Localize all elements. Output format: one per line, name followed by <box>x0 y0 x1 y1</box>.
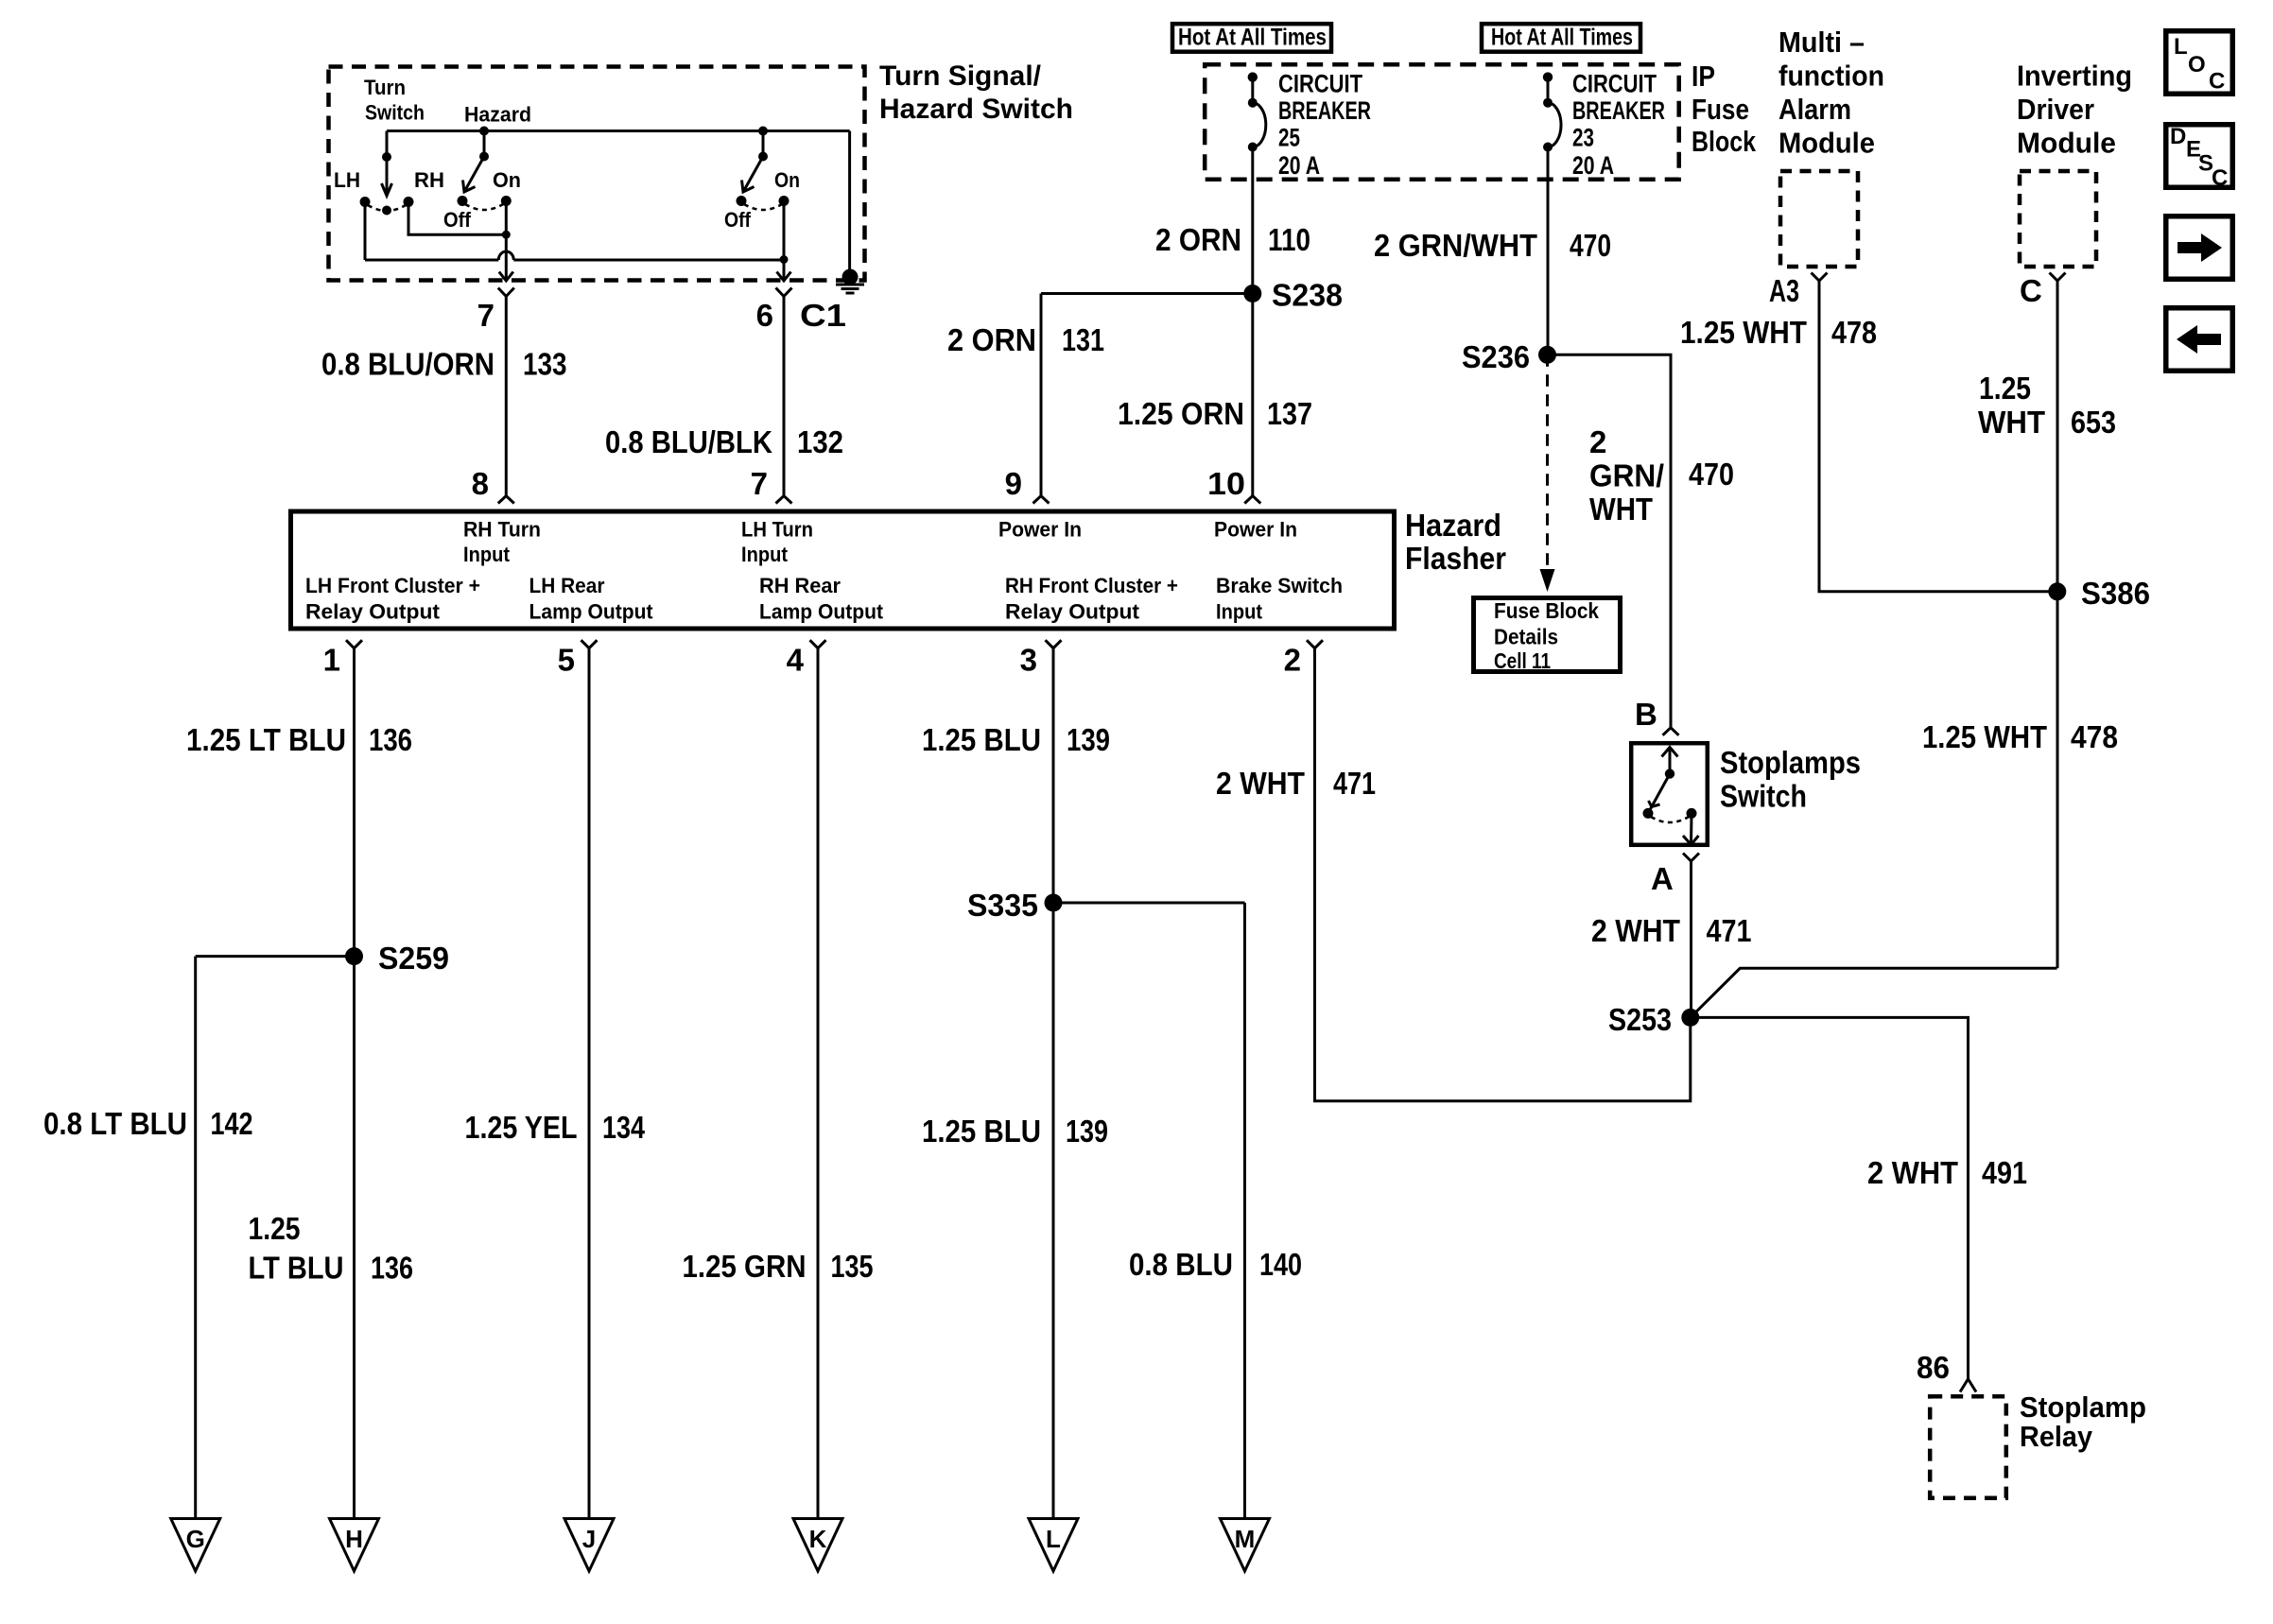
svg-text:3: 3 <box>1020 643 1037 678</box>
svg-text:J: J <box>582 1525 596 1553</box>
svg-text:20 A: 20 A <box>1572 151 1614 180</box>
svg-text:Alarm: Alarm <box>1778 93 1851 126</box>
svg-text:Module: Module <box>2017 127 2116 160</box>
svg-text:Lamp Output: Lamp Output <box>529 600 654 624</box>
svg-text:Cell 11: Cell 11 <box>1494 648 1551 673</box>
svg-text:Stoplamp: Stoplamp <box>2020 1391 2146 1424</box>
svg-text:LH Turn: LH Turn <box>741 518 813 542</box>
svg-text:LH: LH <box>334 168 360 192</box>
svg-text:132: 132 <box>797 424 843 459</box>
svg-text:9: 9 <box>1005 466 1022 501</box>
svg-text:7: 7 <box>751 466 768 501</box>
svg-text:Module: Module <box>1778 127 1875 160</box>
svg-text:C: C <box>2212 165 2228 191</box>
svg-text:function: function <box>1778 60 1884 93</box>
svg-text:Fuse: Fuse <box>1692 93 1749 126</box>
svg-text:1.25 WHT: 1.25 WHT <box>1922 719 2047 754</box>
svg-text:142: 142 <box>211 1106 253 1141</box>
svg-text:C1: C1 <box>800 298 846 333</box>
svg-text:1.25 GRN: 1.25 GRN <box>683 1249 807 1284</box>
svg-text:1.25 LT BLU: 1.25 LT BLU <box>186 722 346 757</box>
svg-text:S335: S335 <box>967 888 1038 923</box>
svg-text:Brake Switch: Brake Switch <box>1216 574 1343 597</box>
svg-text:Relay Output: Relay Output <box>1005 600 1140 624</box>
svg-text:Power In: Power In <box>998 518 1082 542</box>
svg-text:86: 86 <box>1917 1350 1950 1385</box>
svg-text:L: L <box>2174 34 2188 60</box>
svg-text:110: 110 <box>1268 222 1310 257</box>
svg-text:Fuse Block: Fuse Block <box>1494 598 1599 623</box>
svg-text:Input: Input <box>741 543 789 566</box>
svg-text:140: 140 <box>1259 1247 1302 1282</box>
svg-text:BREAKER: BREAKER <box>1278 96 1371 125</box>
svg-text:RH: RH <box>414 168 444 192</box>
svg-text:136: 136 <box>371 1251 413 1286</box>
svg-text:1.25 BLU: 1.25 BLU <box>922 722 1041 757</box>
svg-text:134: 134 <box>602 1110 646 1145</box>
svg-text:Input: Input <box>463 543 511 566</box>
svg-text:2 ORN: 2 ORN <box>1155 222 1241 257</box>
svg-text:2 WHT: 2 WHT <box>1591 913 1680 948</box>
svg-text:470: 470 <box>1570 228 1611 263</box>
svg-text:A: A <box>1651 861 1674 896</box>
svg-text:RH Front Cluster +: RH Front Cluster + <box>1005 574 1178 597</box>
svg-text:Power In: Power In <box>1214 518 1297 542</box>
svg-text:LH Rear: LH Rear <box>529 574 605 597</box>
svg-text:L: L <box>1046 1525 1061 1553</box>
svg-text:0.8 BLU: 0.8 BLU <box>1129 1247 1233 1282</box>
svg-text:131: 131 <box>1062 322 1104 357</box>
svg-text:1: 1 <box>323 643 340 678</box>
svg-text:Switch: Switch <box>365 101 425 125</box>
svg-text:1.25 WHT: 1.25 WHT <box>1680 315 1807 350</box>
svg-text:0.8 LT BLU: 0.8 LT BLU <box>43 1106 187 1141</box>
svg-text:CIRCUIT: CIRCUIT <box>1278 70 1362 98</box>
svg-text:471: 471 <box>1333 766 1376 801</box>
svg-text:133: 133 <box>523 347 567 382</box>
svg-text:Turn: Turn <box>364 76 406 99</box>
svg-text:20 A: 20 A <box>1278 151 1320 180</box>
svg-text:S238: S238 <box>1272 278 1343 313</box>
svg-text:WHT: WHT <box>1978 405 2045 440</box>
svg-text:4: 4 <box>787 643 805 678</box>
svg-text:1.25: 1.25 <box>249 1211 301 1246</box>
svg-text:Off: Off <box>443 208 472 232</box>
svg-text:Relay: Relay <box>2020 1420 2093 1453</box>
svg-text:Lamp Output: Lamp Output <box>759 600 884 624</box>
svg-text:Hazard: Hazard <box>1405 508 1501 543</box>
svg-text:470: 470 <box>1689 457 1734 492</box>
svg-text:6: 6 <box>756 298 773 333</box>
svg-text:Hot At All Times: Hot At All Times <box>1491 25 1633 51</box>
svg-text:2: 2 <box>1589 424 1606 459</box>
svg-text:D: D <box>2170 124 2186 149</box>
svg-text:478: 478 <box>1831 315 1877 350</box>
svg-text:K: K <box>809 1525 827 1553</box>
svg-text:Stoplamps: Stoplamps <box>1720 745 1861 780</box>
svg-text:C: C <box>2209 69 2225 95</box>
svg-text:1.25 ORN: 1.25 ORN <box>1118 396 1244 431</box>
svg-text:A3: A3 <box>1769 273 1799 308</box>
svg-text:S259: S259 <box>378 941 449 976</box>
svg-text:Turn Signal/: Turn Signal/ <box>879 60 1042 92</box>
svg-text:S253: S253 <box>1608 1002 1672 1037</box>
svg-text:1.25 YEL: 1.25 YEL <box>465 1110 578 1145</box>
svg-text:1.25: 1.25 <box>1979 371 2031 406</box>
svg-text:Block: Block <box>1692 125 1757 158</box>
svg-text:C: C <box>2020 273 2042 308</box>
svg-text:5: 5 <box>558 643 575 678</box>
svg-text:Hazard: Hazard <box>464 103 531 127</box>
svg-text:Relay Output: Relay Output <box>305 600 441 624</box>
svg-text:139: 139 <box>1067 722 1110 757</box>
svg-text:Hot At All Times: Hot At All Times <box>1178 25 1327 51</box>
svg-text:8: 8 <box>472 466 489 501</box>
svg-text:Details: Details <box>1494 625 1558 649</box>
svg-text:2 WHT: 2 WHT <box>1216 766 1305 801</box>
svg-text:Hazard Switch: Hazard Switch <box>879 94 1073 125</box>
svg-text:1.25 BLU: 1.25 BLU <box>922 1114 1041 1149</box>
svg-text:RH Rear: RH Rear <box>759 574 841 597</box>
svg-text:On: On <box>774 168 800 192</box>
svg-text:653: 653 <box>2071 405 2116 440</box>
svg-text:LH Front Cluster +: LH Front Cluster + <box>305 574 480 597</box>
svg-text:2: 2 <box>1284 643 1301 678</box>
svg-text:B: B <box>1635 697 1657 732</box>
svg-text:23: 23 <box>1572 124 1594 152</box>
svg-text:On: On <box>493 168 521 192</box>
svg-text:25: 25 <box>1278 124 1300 152</box>
svg-text:LT BLU: LT BLU <box>249 1251 344 1286</box>
svg-text:S386: S386 <box>2081 576 2150 611</box>
svg-text:135: 135 <box>831 1249 874 1284</box>
svg-text:2 ORN: 2 ORN <box>947 322 1036 357</box>
svg-text:137: 137 <box>1267 396 1312 431</box>
svg-text:IP: IP <box>1692 60 1715 93</box>
svg-text:491: 491 <box>1982 1155 2027 1190</box>
svg-text:139: 139 <box>1066 1114 1108 1149</box>
svg-text:2 GRN/WHT: 2 GRN/WHT <box>1374 228 1537 263</box>
svg-text:136: 136 <box>369 722 412 757</box>
svg-text:Driver: Driver <box>2017 93 2094 126</box>
svg-text:GRN/: GRN/ <box>1589 458 1664 493</box>
svg-text:Off: Off <box>724 208 752 232</box>
svg-text:2 WHT: 2 WHT <box>1867 1155 1958 1190</box>
svg-text:478: 478 <box>2071 719 2118 754</box>
svg-text:0.8 BLU/BLK: 0.8 BLU/BLK <box>605 424 772 459</box>
svg-text:471: 471 <box>1707 913 1752 948</box>
svg-text:Flasher: Flasher <box>1405 541 1506 576</box>
svg-text:Input: Input <box>1216 600 1263 624</box>
svg-text:M: M <box>1235 1525 1256 1553</box>
svg-text:CIRCUIT: CIRCUIT <box>1572 70 1657 98</box>
svg-text:10: 10 <box>1207 466 1245 501</box>
svg-text:0.8 BLU/ORN: 0.8 BLU/ORN <box>321 347 495 382</box>
svg-text:H: H <box>345 1525 363 1553</box>
svg-text:RH Turn: RH Turn <box>463 518 541 542</box>
svg-text:S236: S236 <box>1462 339 1530 374</box>
svg-text:G: G <box>186 1525 205 1553</box>
svg-text:BREAKER: BREAKER <box>1572 96 1665 125</box>
svg-text:Inverting: Inverting <box>2017 60 2132 93</box>
svg-text:O: O <box>2188 52 2206 78</box>
svg-text:7: 7 <box>477 298 495 333</box>
svg-text:Multi –: Multi – <box>1778 26 1865 59</box>
svg-text:Switch: Switch <box>1720 779 1807 814</box>
svg-text:WHT: WHT <box>1589 492 1653 527</box>
